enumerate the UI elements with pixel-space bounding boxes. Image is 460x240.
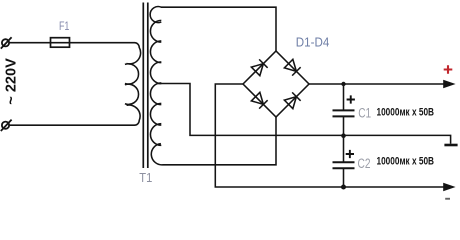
plus rail arrowhead xyxy=(443,80,455,88)
diode D1 (left-top edge) xyxy=(251,59,267,75)
input terminal top xyxy=(1,37,12,48)
diode D3 (left-bottom edge) xyxy=(251,92,267,108)
svg-text:C1: C1 xyxy=(358,106,371,121)
label - (small) xyxy=(445,198,450,200)
node junction dot (minus rail / C2) xyxy=(341,185,346,190)
wire: bottom input to transformer primary xyxy=(9,124,135,126)
wire: bridge plus output rail xyxy=(309,83,444,85)
capacitor C2 xyxy=(333,135,355,187)
wire: top input to fuse to transformer primary xyxy=(9,42,135,44)
fuse F1 xyxy=(51,38,70,48)
svg-text:10000мк x 50В: 10000мк x 50В xyxy=(377,156,435,168)
transformer T1 primary winding xyxy=(125,43,141,126)
svg-text:T1: T1 xyxy=(139,170,152,185)
wire: secondary top to bridge top vertex xyxy=(150,7,276,51)
svg-text:~ 220V: ~ 220V xyxy=(3,58,19,105)
capacitor C1 xyxy=(333,84,355,135)
0V terminal bar xyxy=(444,144,457,147)
wire: center tap to 0V rail xyxy=(158,84,451,144)
svg-text:C2: C2 xyxy=(358,156,371,171)
svg-text:D1-D4: D1-D4 xyxy=(296,36,330,50)
bridge diamond edges xyxy=(243,51,309,117)
transformer T1 secondary winding xyxy=(150,20,161,145)
wire: bridge minus to minus rail xyxy=(215,84,443,187)
svg-text:10000мк x 50В: 10000мк x 50В xyxy=(377,107,435,119)
diode D2 (top-right edge) xyxy=(284,59,300,75)
wire: secondary bottom to bridge bottom vertex xyxy=(151,117,276,165)
node junction dot (plus rail / C1) xyxy=(341,82,345,86)
input terminal bottom xyxy=(1,120,12,131)
diode D4 (bottom-right edge) xyxy=(284,92,300,108)
transformer T1 core xyxy=(142,3,144,169)
minus rail arrowhead xyxy=(443,183,455,191)
label + (red) xyxy=(444,65,453,74)
node junction dot (0V rail / C1-C2) xyxy=(341,133,346,138)
svg-text:F1: F1 xyxy=(59,19,70,33)
